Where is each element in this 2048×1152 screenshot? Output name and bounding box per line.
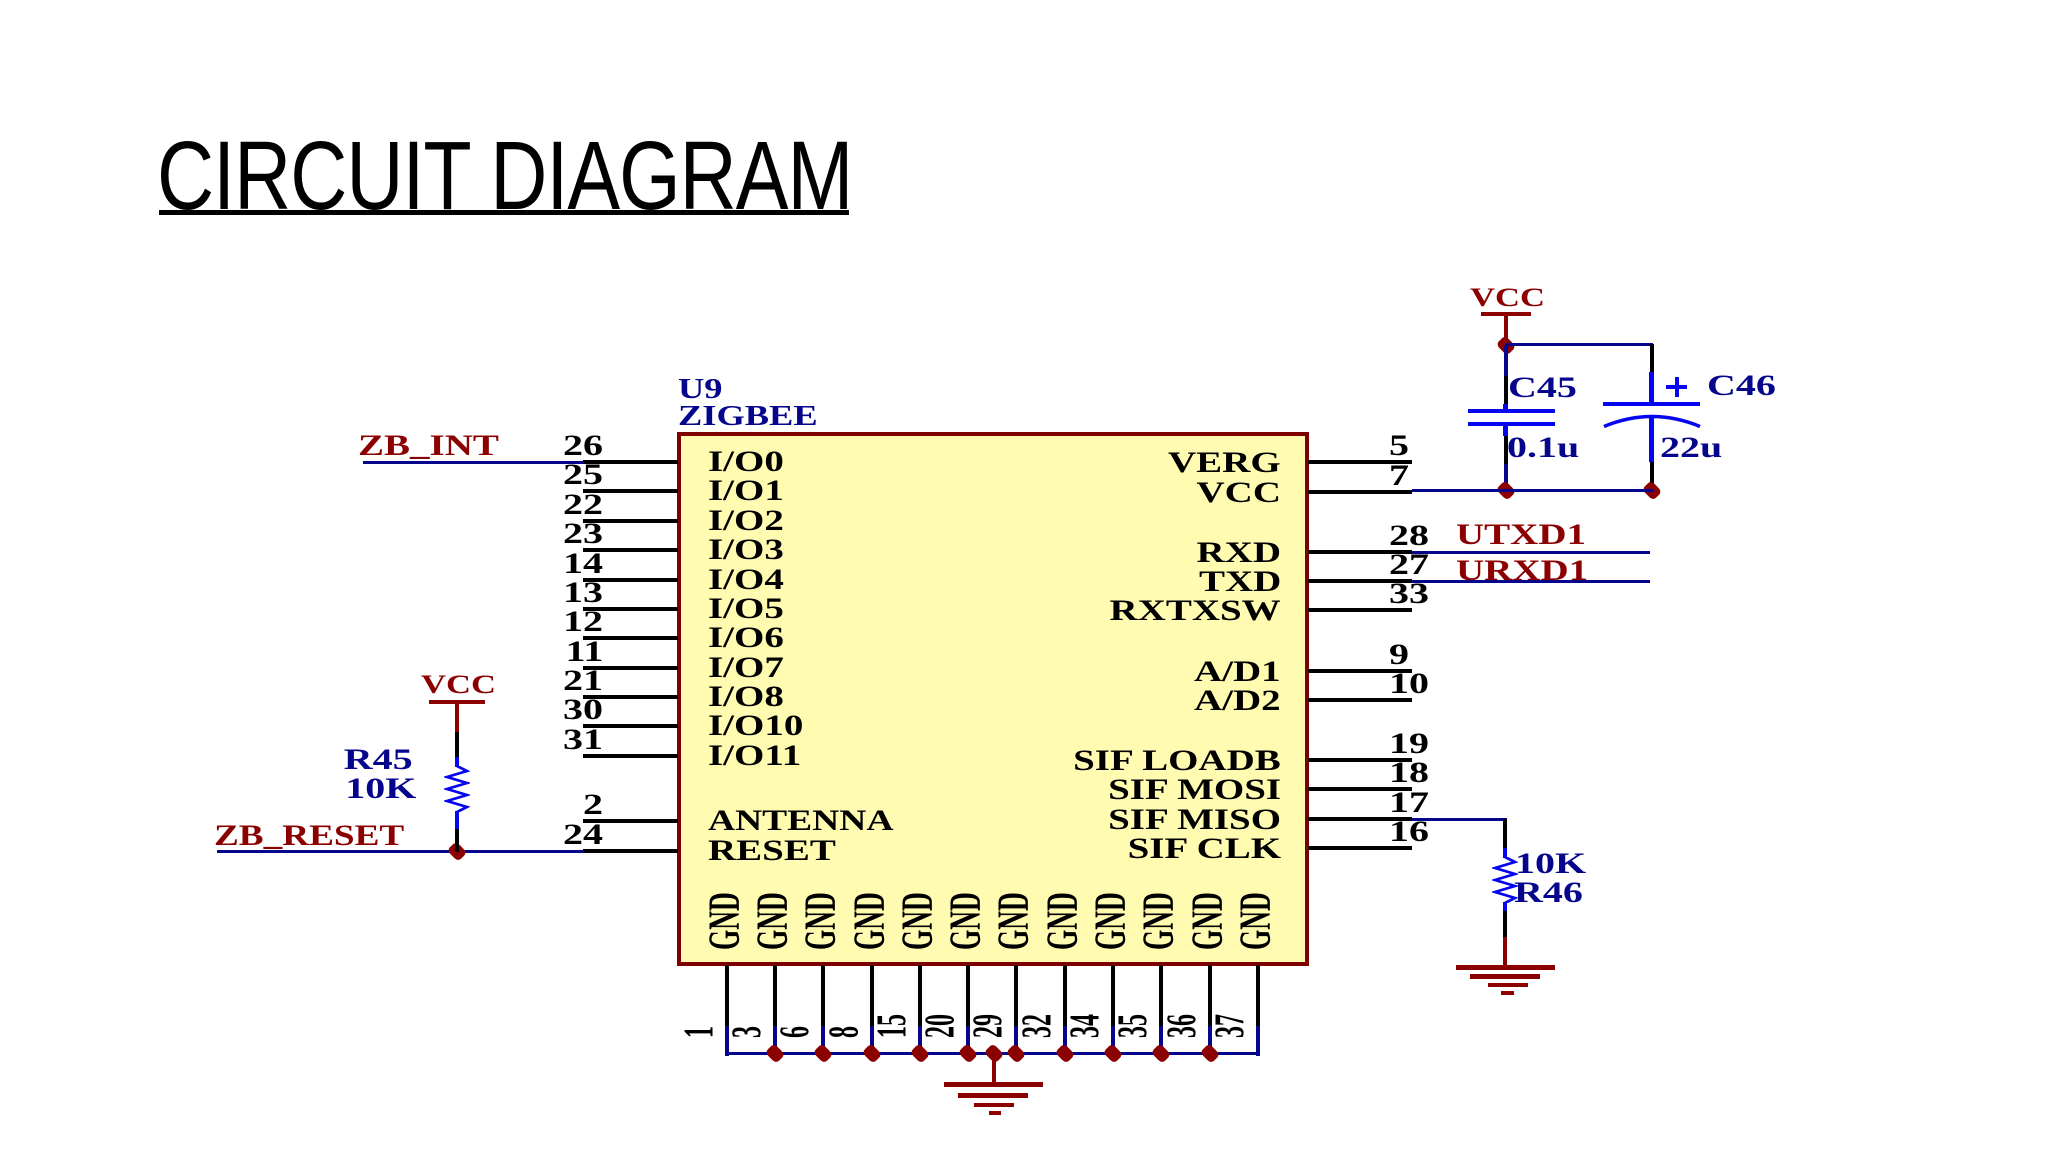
pin number 13 <box>563 578 603 608</box>
R45 bottom lead blue <box>455 811 459 829</box>
junction VCC / C45 / C46 <box>1495 335 1516 356</box>
GND pin label (pin 8) <box>848 892 892 950</box>
net label UTXD1 <box>1456 520 1586 550</box>
C46 plate top (+) <box>1603 402 1700 406</box>
pin number 11 <box>565 637 603 667</box>
C45 top lead black <box>1504 376 1508 404</box>
wire: pin 30 stub (left, I/O10) <box>583 724 678 728</box>
wire: bottom pin 6 stub blue <box>821 1026 825 1056</box>
pin number 10 <box>1389 669 1429 699</box>
bottom pin number 8 <box>824 1026 866 1038</box>
pin label RXD <box>1197 538 1282 568</box>
wire: bottom pin 37 stub blue <box>1256 1026 1260 1056</box>
pin label I/O1 <box>708 476 784 506</box>
pin label SIF MOSI <box>1108 775 1281 805</box>
capacitor C45 designator <box>1508 373 1577 403</box>
C45 top lead <box>1504 346 1508 376</box>
pin number 16 <box>1389 817 1429 847</box>
bottom pin number 20 <box>920 1014 962 1038</box>
R46 top lead black <box>1503 819 1507 848</box>
wire: bottom pin 36 stub blue <box>1208 1026 1212 1056</box>
wire: pin 23 stub (left, I/O3) <box>583 548 678 552</box>
C46 top lead blue <box>1649 372 1654 404</box>
pin number 28 <box>1389 521 1429 551</box>
bottom pin number 34 <box>1065 1014 1107 1038</box>
wire: pin 18 stub (right, SIF MOSI) <box>1308 787 1412 791</box>
GND pin label (pin 15) <box>896 892 940 950</box>
pin label I/O4 <box>708 565 784 595</box>
pin label I/O10 <box>708 711 803 741</box>
pin label ANTENNA <box>708 806 893 836</box>
R46 ground bar 4 <box>1501 991 1514 995</box>
R45 top lead blue <box>455 757 459 767</box>
ground stub <box>992 1054 996 1083</box>
junction on GND bus x=1016 <box>1006 1043 1027 1064</box>
pin label I/O3 <box>708 535 784 565</box>
wire: bottom pin 20 stub blue <box>966 1026 970 1056</box>
resistor R45 value 10K <box>345 774 416 804</box>
bottom pin number 15 <box>872 1014 914 1038</box>
wire: pin 2 stub (left, ANTENNA) <box>583 819 678 823</box>
bottom pin number 3 <box>727 1026 769 1038</box>
pin label I/O7 <box>708 653 784 683</box>
wire: pin 5 stub (right, VERG) <box>1308 460 1412 464</box>
C45 bottom lead black <box>1504 436 1508 464</box>
C45 bottom lead blue <box>1503 426 1508 436</box>
wire: pin 12 stub (left, I/O6) <box>583 636 678 640</box>
wire: UTXD1 net <box>1412 551 1650 554</box>
U9 reference designator <box>678 376 723 404</box>
resistor R46 designator <box>1514 878 1583 908</box>
wire: VCC pin 7 net <box>1412 489 1653 492</box>
R45 top lead black <box>455 732 459 757</box>
bottom pin number 32 <box>1017 1014 1059 1038</box>
R46 ground bar 3 <box>1488 983 1528 987</box>
VCC stub red (top right) <box>1504 316 1508 344</box>
resistor R46 value 10K <box>1515 849 1586 879</box>
C45 bottom lead <box>1504 464 1508 489</box>
pin number 27 <box>1389 550 1429 580</box>
wire: URXD1 net <box>1412 580 1650 583</box>
capacitor C46 curved plate <box>1603 413 1701 433</box>
C45 plate bottom <box>1468 422 1555 426</box>
pin number 25 <box>563 460 603 490</box>
pin number 5 <box>1389 431 1409 461</box>
power label VCC (top right) <box>1470 285 1545 311</box>
junction on GND bus x=774 <box>765 1043 786 1064</box>
wire: bottom pin 29 stub blue <box>1014 1026 1018 1056</box>
R45 bottom lead black <box>455 829 459 852</box>
net label ZB_INT <box>358 431 499 461</box>
pin label TXD <box>1199 567 1281 597</box>
pin label A/D2 <box>1194 686 1281 716</box>
pin number 9 <box>1389 640 1409 670</box>
pin number 33 <box>1389 579 1429 609</box>
capacitor C46 designator <box>1707 371 1776 401</box>
wire: pin 24 stub (left, RESET) <box>583 849 678 853</box>
VCC power bar (top right) <box>1481 312 1531 316</box>
pin label RXTXSW <box>1110 596 1281 626</box>
wire: bottom pin 8 stub black <box>870 965 874 1026</box>
pin number 21 <box>563 666 603 696</box>
wire: bottom pin 34 stub blue <box>1111 1026 1115 1056</box>
resistor R45 zigzag <box>444 766 470 812</box>
pin label SIF LOADB <box>1073 746 1281 776</box>
wire: pin 13 stub (left, I/O5) <box>583 607 678 611</box>
wire: pin 25 stub (left, I/O1) <box>583 489 678 493</box>
capacitor C45 value 0.1u <box>1507 433 1579 463</box>
C46 bottom lead black <box>1650 462 1654 489</box>
wire: bottom pin 36 stub black <box>1208 965 1212 1026</box>
junction on GND bus x=871 <box>861 1043 882 1064</box>
junction C46 / VCC pin7 net <box>1641 480 1662 501</box>
ground bar 1 <box>944 1082 1043 1087</box>
title: CIRCUIT DIAGRAM <box>157 127 852 224</box>
wire: bottom pin 1 stub blue <box>725 1026 729 1056</box>
wire: pin 31 stub (left, I/O11) <box>583 754 678 758</box>
wire: pin 17 stub (right, SIF MISO) <box>1308 817 1412 821</box>
junction on GND bus x=1161 <box>1151 1043 1172 1064</box>
wire: VCC to C46 branch <box>1505 343 1653 346</box>
R46 bottom lead black <box>1503 911 1507 937</box>
IC U9 ZIGBEE body <box>677 432 1309 966</box>
wire: pin 11 stub (left, I/O7) <box>583 666 678 670</box>
pin number 18 <box>1389 758 1429 788</box>
wire: bottom pin 34 stub black <box>1111 965 1115 1026</box>
wire: ZB_INT net <box>363 461 584 464</box>
wire: bottom pin 20 stub black <box>966 965 970 1026</box>
C45 top lead blue <box>1503 404 1508 410</box>
pin label SIF MISO <box>1108 805 1281 835</box>
wire: bottom pin 8 stub blue <box>870 1026 874 1056</box>
GND pin label (pin 36) <box>1186 892 1230 950</box>
R46 bottom lead blue <box>1503 902 1507 912</box>
R46 ground stub red <box>1503 937 1507 966</box>
pin label VCC <box>1197 478 1282 508</box>
GND pin label (pin 1) <box>703 892 747 950</box>
pin number 2 <box>583 790 603 820</box>
junction on GND bus x=919 <box>910 1043 931 1064</box>
pin number 14 <box>563 549 603 579</box>
pin number 30 <box>563 695 603 725</box>
junction on GND bus x=968 <box>958 1043 979 1064</box>
GND pin label (pin 32) <box>1041 892 1085 950</box>
net label URXD1 <box>1456 556 1588 586</box>
C46 plus sign horizontal <box>1666 385 1687 389</box>
VCC power bar (R45) <box>429 700 485 704</box>
junction ZB_RESET / R45 <box>447 841 468 862</box>
pin number 26 <box>563 431 603 461</box>
bottom pin number 6 <box>775 1026 817 1038</box>
pin label RESET <box>708 836 836 866</box>
wire: pin 9 stub (right, A/D1) <box>1308 669 1412 673</box>
wire: pin 14 stub (left, I/O4) <box>583 578 678 582</box>
wire: ZB_RESET net <box>217 850 584 853</box>
pin label I/O8 <box>708 682 784 712</box>
U9 part name ZIGBEE <box>678 403 818 431</box>
title underline <box>159 210 849 215</box>
VCC stub red (R45) <box>455 704 459 732</box>
wire: bottom pin 3 stub blue <box>773 1026 777 1056</box>
wire: pin 16 stub (right, SIF CLK) <box>1308 846 1412 850</box>
wire: pin 22 stub (left, I/O2) <box>583 519 678 523</box>
pin label I/O6 <box>708 623 784 653</box>
bottom pin number 1 <box>679 1026 721 1038</box>
wire: pin 27 stub (right, TXD) <box>1308 579 1412 583</box>
wire: pin 7 stub (right, VCC) <box>1308 490 1412 494</box>
pin label I/O0 <box>708 447 784 477</box>
wire: SIF MISO net to R46 <box>1412 818 1507 821</box>
GND pin label (pin 20) <box>944 892 988 950</box>
wire: bottom pin 15 stub black <box>918 965 922 1026</box>
wire: pin 26 stub (left, I/O0) <box>583 460 678 464</box>
pin number 19 <box>1389 729 1429 759</box>
junction GND bus at ground stub <box>984 1043 1005 1064</box>
wire: pin 21 stub (left, I/O8) <box>583 695 678 699</box>
junction on GND bus x=823 <box>813 1043 834 1064</box>
pin number 12 <box>563 607 603 637</box>
resistor R46 zigzag <box>1492 857 1518 903</box>
bottom pin number 35 <box>1113 1014 1155 1038</box>
C45 plate top <box>1468 409 1555 413</box>
resistor R45 designator <box>344 745 413 775</box>
wire: bottom pin 35 stub blue <box>1159 1026 1163 1056</box>
pin number 7 <box>1389 461 1409 491</box>
junction on GND bus x=1064 <box>1054 1043 1075 1064</box>
C46 plus sign vertical <box>1675 377 1679 397</box>
wire: bottom pin 32 stub black <box>1063 965 1067 1026</box>
GND pin label (pin 37) <box>1234 892 1278 950</box>
pin label VERG <box>1168 448 1281 478</box>
pin number 31 <box>563 725 603 755</box>
GND pin label (pin 29) <box>992 892 1036 950</box>
GND pin label (pin 35) <box>1137 892 1181 950</box>
pin label SIF CLK <box>1127 834 1281 864</box>
C46 top lead black <box>1650 344 1654 372</box>
bottom pin number 29 <box>968 1014 1010 1038</box>
ground bar 2 <box>958 1093 1028 1098</box>
pin label I/O5 <box>708 594 784 624</box>
wire: bottom pin 32 stub blue <box>1063 1026 1067 1056</box>
pin number 23 <box>563 519 603 549</box>
wire: bottom pin 37 stub black <box>1256 965 1260 1026</box>
C46 bottom lead blue <box>1649 417 1654 462</box>
wire: bottom pin 35 stub black <box>1159 965 1163 1026</box>
net label ZB_RESET <box>214 821 404 851</box>
R46 top lead blue <box>1503 848 1507 858</box>
GND pin label (pin 34) <box>1089 892 1133 950</box>
pin number 22 <box>563 490 603 520</box>
junction C45 / VCC pin7 net <box>1495 480 1516 501</box>
junction on GND bus x=1209 <box>1199 1043 1220 1064</box>
wire: pin 10 stub (right, A/D2) <box>1308 698 1412 702</box>
capacitor C46 value 22u <box>1660 433 1722 463</box>
wire: GND bus <box>725 1052 1261 1055</box>
wire: bottom pin 15 stub blue <box>918 1026 922 1056</box>
GND pin label (pin 6) <box>799 892 843 950</box>
pin number 24 <box>563 820 603 850</box>
pin label I/O2 <box>708 506 784 536</box>
wire: bottom pin 6 stub black <box>821 965 825 1026</box>
GND pin label (pin 3) <box>751 892 795 950</box>
ground bar 4 <box>989 1111 1001 1115</box>
bottom pin number 37 <box>1210 1014 1252 1038</box>
wire: bottom pin 29 stub black <box>1014 965 1018 1026</box>
R46 ground bar 2 <box>1470 974 1540 979</box>
R46 ground bar 1 <box>1456 965 1555 970</box>
pin number 17 <box>1389 788 1429 818</box>
pin label I/O11 <box>708 741 801 771</box>
wire: bottom pin 1 stub black <box>725 965 729 1026</box>
wire: pin 33 stub (right, RXTXSW) <box>1308 608 1412 612</box>
pin label A/D1 <box>1194 657 1281 687</box>
junction on GND bus x=1113 <box>1103 1043 1124 1064</box>
wire: bottom pin 3 stub black <box>773 965 777 1026</box>
wire: pin 19 stub (right, SIF LOADB) <box>1308 758 1412 762</box>
wire: pin 28 stub (right, RXD) <box>1308 550 1412 554</box>
power label VCC (R45) <box>421 672 496 698</box>
bottom pin number 36 <box>1162 1014 1204 1038</box>
ground bar 3 <box>974 1103 1014 1107</box>
